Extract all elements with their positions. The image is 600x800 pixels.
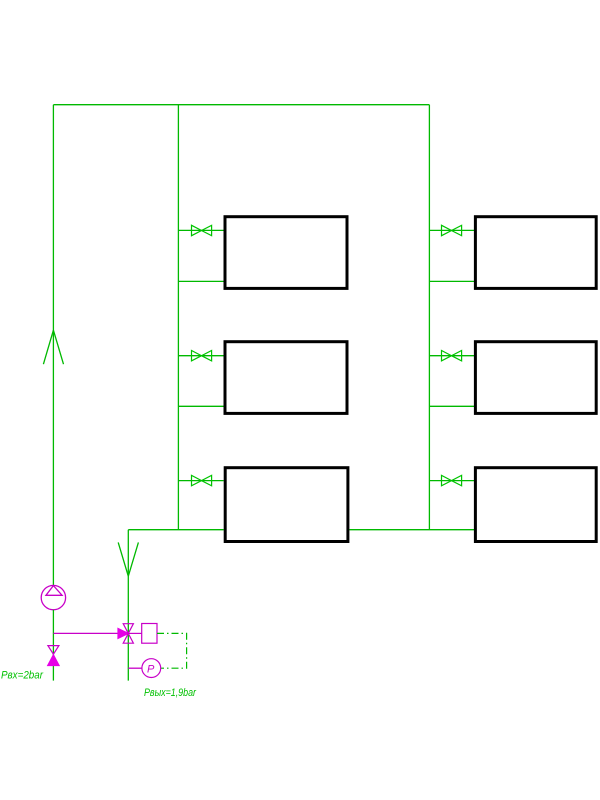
radiator row2 left (225, 342, 347, 414)
valve row3 left (192, 475, 212, 485)
wire valve branch row2 right (429, 355, 474, 357)
valve row1 left (192, 225, 212, 235)
wire return drop pipe (127, 530, 129, 681)
radiator row2 right (475, 342, 596, 414)
radiator row1 left (225, 217, 347, 289)
pressure gauge P (142, 659, 161, 678)
wire left riser below pump (52, 610, 54, 681)
wire top supply header (53, 104, 429, 106)
wire left supply riser upper (52, 105, 54, 586)
actuator box (142, 624, 157, 644)
valve row3 right (442, 475, 462, 485)
wire return stub row2 right (429, 405, 474, 407)
wire bottom return line (128, 529, 474, 531)
valve row2 right (442, 351, 462, 361)
pressure reducing valve PRV (118, 624, 142, 644)
wire left column riser (177, 105, 179, 530)
wire valve branch row3 right (429, 480, 474, 482)
svg-text:P: P (147, 664, 155, 676)
svg-text:Рвых=1,9bar: Рвых=1,9bar (144, 687, 197, 699)
wire valve branch row1 right (429, 229, 474, 231)
flow arrow up on left riser (43, 330, 63, 364)
valve row2 left (192, 351, 212, 361)
radiator row3 right (475, 468, 596, 542)
wire right column riser (428, 105, 430, 530)
pump P1 (41, 585, 65, 609)
wire valve branch row2 left (178, 355, 223, 357)
wire gauge stub (128, 667, 142, 669)
valve row1 right (442, 225, 462, 235)
wire return stub row2 left (178, 405, 223, 407)
flow arrow down on return drop (118, 542, 138, 576)
wire inlet line to pressure reducer (53, 632, 118, 634)
check valve CV1 (48, 646, 59, 666)
wire return stub row1 left (178, 280, 223, 282)
wire valve branch row3 left (178, 480, 223, 482)
wire valve branch row1 left (178, 229, 223, 231)
radiator row1 right (475, 217, 596, 289)
svg-text:Рвх=2bar: Рвх=2bar (1, 670, 44, 682)
impulse line (dash-dot) (157, 633, 187, 668)
radiator row3 left (225, 468, 348, 542)
wire return stub row1 right (429, 280, 474, 282)
